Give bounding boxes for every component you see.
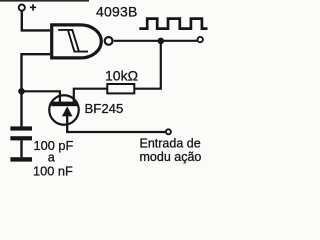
node junction on output wire	[158, 38, 165, 45]
NAND gate U1 4093B Schmitt trigger	[52, 25, 113, 58]
terminal modulation input	[166, 129, 171, 134]
transistor Q1 BF245 JFET	[49, 95, 79, 132]
node junction on input rail	[18, 88, 25, 95]
svg-text:Entrada de: Entrada de	[140, 137, 201, 151]
label Entrada de modu ação	[140, 137, 202, 165]
square wave symbol	[139, 19, 207, 29]
svg-text:100 nF: 100 nF	[33, 164, 73, 179]
resistor 10kΩ	[107, 84, 134, 93]
capacitor C1 100pF-100nF	[10, 126, 32, 157]
svg-text:modu ação: modu ação	[140, 150, 202, 164]
wire gate input 2 rail (gate pin 2 to capacitor)	[22, 54, 51, 126]
wire junction down to resistor right lead	[135, 41, 161, 89]
svg-text:a: a	[48, 149, 56, 164]
ground bar	[10, 157, 32, 161]
svg-text:BF245: BF245	[85, 101, 124, 116]
terminal output	[198, 37, 203, 42]
svg-text:10kΩ: 10kΩ	[105, 68, 138, 84]
svg-text:+: +	[30, 1, 37, 15]
wire V+ terminal to gate input 1	[22, 11, 50, 31]
svg-text:4093B: 4093B	[96, 4, 137, 20]
label capacitor value 100 pF a 100 nF	[33, 138, 74, 179]
terminal V+	[19, 1, 37, 15]
wire JFET source to input rail	[22, 91, 60, 102]
wire JFET gate to modulation terminal	[66, 131, 165, 133]
wire gate output to output terminal	[114, 40, 197, 42]
wire resistor left lead to JFET drain	[74, 89, 108, 102]
